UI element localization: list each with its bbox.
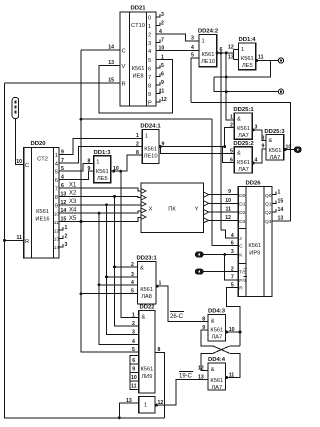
svg-text:15: 15 [278,199,284,205]
wire DD25:1 out3 to DD25:3 in8 [252,130,266,141]
junction out6 at x226.2 [225,51,228,54]
svg-text:ЛЕ5: ЛЕ5 [97,176,108,182]
value K561 LA7 second [237,160,250,173]
svg-text:К561: К561 [140,287,153,293]
svg-text:1: 1 [230,115,233,121]
wire out9 branch to DD25:2 in5 [160,147,234,154]
svg-text:Q3: Q3 [265,219,272,225]
junction X4 drop at DD23 in4 [98,283,101,286]
wire out6 branch down to DD26.J [221,53,238,238]
label DD20 [30,141,46,147]
svg-text:10: 10 [54,212,60,218]
wire DD21.C from vertical bus x81 [81,49,120,51]
svg-text:6: 6 [161,72,164,78]
wire left rail R net [5,83,165,418]
svg-text:DD24:2: DD24:2 [198,29,219,35]
svg-text:8: 8 [148,84,151,90]
wire DD21.V loop to output5 pin1 [99,60,172,114]
svg-text:ЛА7: ЛА7 [238,133,249,139]
svg-text:14: 14 [278,207,284,213]
svg-text:1: 1 [148,24,151,30]
svg-text:9: 9 [132,366,135,372]
wire out6 branch down to DD25:1 in1 [226,53,234,120]
svg-text:3: 3 [65,242,68,248]
junction x81 at y119 [80,118,83,121]
nand-gate DD25:2 K561 LA7 [234,147,252,173]
inverter symbol 1 [144,403,147,409]
svg-text:DD21: DD21 [130,6,146,12]
svg-text:5: 5 [55,170,58,176]
label DD1:3 [93,150,111,156]
junction at 226.2,76.3 [225,76,228,79]
svg-text:&: & [237,117,241,123]
wire DD1:3 out10 to DD24:1 in8 [111,155,143,171]
svg-text:1: 1 [278,190,281,196]
svg-text:C: C [122,49,126,55]
label DD21 [130,6,146,12]
wire branch to DD23:1 in2 [115,266,138,268]
matrix PK block [141,183,204,233]
svg-text:CT10: CT10 [131,23,145,29]
svg-text:X4: X4 [69,208,77,214]
svg-text:12: 12 [54,228,60,234]
connector pins dashes [14,101,16,114]
wire inverter in13 from bottom rail [119,403,139,418]
wire y119 branch to DD26.C [212,119,238,245]
junction bottom rail 13 [118,416,121,419]
wire branch to DD23:1 in5 [81,293,137,295]
wire terminal K to DD26.K [203,254,238,256]
junction X2 drop at DD23 in2 [113,265,116,268]
junction inverter out12 [155,404,158,407]
svg-text:7: 7 [55,187,58,193]
net labels X1-X5 [69,182,77,222]
svg-text:Y: Y [195,207,199,213]
DD21 left pin labels C V R [108,45,125,88]
junction DD24:2 out6 [216,51,219,54]
DD4:4 symbol & [211,367,215,373]
svg-text:26-С: 26-С [170,314,184,320]
svg-text:12: 12 [225,215,231,221]
wire branch to DD23:1 in4 [99,284,137,286]
wire PK Y0 to DD26.D0 [209,194,239,196]
nand-gate DD4:4 K561 LA7 [208,363,226,390]
svg-text:R: R [122,82,126,88]
wire DD21.R from left rail [5,82,121,84]
svg-text:9: 9 [55,203,58,209]
svg-text:V: V [122,64,126,70]
svg-text:12: 12 [161,97,167,103]
label DD25:1 [233,107,254,113]
svg-text:11: 11 [258,55,264,61]
svg-text:ЛА7: ЛА7 [270,155,281,161]
value K561 LA7 dd43 [210,328,223,341]
and-gate DD22 K561 LI9 [139,311,155,393]
DD25:3 symbol & [269,138,273,144]
label DD25:3 [264,129,285,135]
svg-text:9: 9 [228,189,231,195]
vertical bus x81 C/X5 net [81,50,139,352]
svg-text:&: & [211,367,215,373]
svg-text:P/S: P/S [239,278,247,284]
net label 26-C [170,314,184,320]
svg-text:ЛЕ10: ЛЕ10 [201,59,215,65]
svg-text:T/S: T/S [239,270,246,276]
junction out10 drop [119,170,122,173]
DD1:4 pin numbers [228,45,264,61]
DD25:1 pin numbers [230,115,258,131]
wire DD20 row1 pin9 to DD24:1 in1 [59,138,142,154]
counter DD20 K561 IE16 [24,148,59,259]
DD20 output pin numbers [61,149,68,248]
svg-text:К561: К561 [96,169,109,175]
DD26 Q stubs and pin numbers [272,192,276,213]
svg-text:К561: К561 [144,147,157,153]
svg-text:&: & [142,315,146,321]
svg-text:11: 11 [229,373,235,379]
svg-text:ЛИ9: ЛИ9 [141,374,152,380]
junction out9 in2 branch [223,145,226,148]
svg-text:ЛЕ5: ЛЕ5 [242,63,253,69]
svg-text:ПК: ПК [168,207,176,213]
svg-text:7: 7 [161,38,164,44]
svg-text:1: 1 [144,403,147,409]
or-gate DD24:2 K561 LE10 [199,34,217,66]
svg-text:11: 11 [159,89,165,95]
svg-text:ИР9: ИР9 [249,251,260,257]
svg-text:5: 5 [148,58,151,64]
label DD4:4 [208,357,226,363]
svg-text:13: 13 [54,237,60,243]
label DD24:2 [198,29,219,35]
wire DD1:4 out11 to terminal 1 [256,60,279,62]
wire DD24:2 out6 to DD1:4 inputs [217,50,239,60]
wire DD21.out4 pin10 to DD24:2 in4 [156,50,199,52]
value K561 LI9 [140,367,153,381]
wire cross to DD4:4 out11 [226,353,241,377]
label PK [168,207,176,213]
svg-text:C: C [239,244,243,250]
junction X4 [98,212,101,215]
wire K to P/S pin7 [225,255,239,280]
svg-text:CT2: CT2 [37,157,48,163]
terminal circle 2 [278,89,283,94]
wire inverter out12 to DD4:4 in13 (19-C) [155,380,208,406]
svg-text:6: 6 [231,240,234,246]
svg-text:ЛЕ10: ЛЕ10 [144,154,158,160]
svg-text:9: 9 [148,92,151,98]
svg-text:DD25:3: DD25:3 [264,129,285,135]
wire DD20 row5 pin5 to DD1:3 in8 [59,164,94,172]
svg-text:3: 3 [148,41,151,47]
wire X2 drop to DD22 in2 [115,196,139,326]
nor-gate DD1:3 K561 LE5 [94,156,111,183]
overline marks TS PS [244,268,248,276]
DD24:2 pin numbers [191,36,223,59]
DD23:1 symbol & [140,266,144,272]
value K561 LE5 [241,56,254,69]
svg-text:X5: X5 [69,216,77,222]
junction X2 [113,195,116,198]
wire DD1:3 out to DD22 in1 [121,171,139,318]
label DD26 [245,181,261,187]
junction x81 X5 [80,220,83,223]
svg-text:D3: D3 [239,219,245,225]
svg-text:D1: D1 [239,202,245,208]
svg-text:9: 9 [161,80,164,86]
svg-text:8: 8 [55,195,58,201]
svg-text:ЛА8: ЛА8 [141,294,152,300]
svg-text:К561: К561 [248,243,261,249]
value K561 IR9 [248,243,261,257]
svg-text:К561: К561 [210,328,223,334]
wire X4 drop to DD23:1 in4 and DD22 in4 [99,213,139,344]
svg-text:9: 9 [262,144,265,150]
svg-text:1: 1 [145,134,148,140]
svg-text:ЛА7: ЛА7 [238,167,249,173]
wire DD25:3 out10 to right terminal [284,149,295,151]
junction out10 on R drop [239,331,242,334]
svg-text:К561: К561 [237,126,250,132]
junction out6 J branch [219,51,222,54]
svg-text:DD25:2: DD25:2 [233,141,254,147]
wire DD21.out2 pin4 to DD24:2 in3 [156,34,199,41]
value K561 LA7 dd44 [210,378,223,391]
DD24:1 symbol 1 [145,134,148,140]
value K561 IE16 [35,209,49,223]
svg-text:C: C [25,163,29,169]
wire X3 bus [59,204,141,206]
wire X5 bus [59,218,141,222]
svg-text:&: & [269,138,273,144]
DD22 symbol & [142,315,146,321]
DD22 input pin numbers [132,313,161,353]
svg-text:X: X [149,207,153,213]
svg-text:1: 1 [65,225,68,231]
svg-text:X1: X1 [69,182,77,188]
wire DD20.R from left rail [5,239,24,241]
svg-text:P: P [148,101,152,107]
svg-text:DD1:4: DD1:4 [238,37,256,43]
svg-text:5: 5 [161,63,164,69]
terminal cartridge right [295,147,302,152]
svg-text:4: 4 [191,45,194,51]
svg-text:DD4:4: DD4:4 [208,357,226,363]
svg-text:10: 10 [225,198,231,204]
svg-text:8: 8 [202,317,205,323]
svg-text:К561: К561 [132,66,145,72]
svg-text:DD20: DD20 [30,141,46,147]
terminal cartridge TS [196,269,204,274]
value K561 LA7 [237,126,250,139]
wire DD20 row4 pin7 to DD24:1 in2 [59,147,142,163]
DD26 left labels [239,193,247,292]
terminal cartridge K [196,252,204,257]
junction DD23:1 out1 [156,285,159,288]
DD4:3 pin numbers [202,317,234,333]
PK input triangles [141,189,146,220]
wire DD24:2 in5 from Q3 line [191,58,199,103]
svg-text:ИЕ16: ИЕ16 [35,217,49,223]
DD20 stage numbers [54,153,60,251]
wire out9 branch up to DD25:1 in2 [225,128,235,147]
DD25:2 pin numbers [230,149,258,164]
svg-text:DD22: DD22 [139,304,155,310]
junction at 226.2,91.7 [225,90,228,93]
wire DD23:1 out1 to DD4:3 in8 (26-C) [156,286,208,321]
value K561 LE5 first [96,169,109,182]
label DD24:1 [140,124,161,130]
value K561 LA8 [140,287,153,300]
svg-text:10: 10 [131,375,137,381]
svg-text:4: 4 [148,49,151,55]
wire branch to DD23:1 in3 [107,276,138,278]
svg-text:К561: К561 [140,367,153,373]
DD1:4 symbol 1 [241,47,244,53]
wire out11 branch left [214,61,270,78]
svg-text:1: 1 [96,160,99,166]
DD21 output pin numbers [159,12,167,103]
svg-text:11: 11 [54,220,59,226]
svg-text:Q1: Q1 [265,202,272,208]
nand-gate DD23:1 K561 LA8 [137,262,156,305]
DD22 tied pin boxes 6 9 10 11 [130,355,139,389]
value K561 IE8 [132,66,145,80]
DD25:2 symbol & [237,151,241,157]
label Y [195,207,199,213]
wire X3 drop to DD22 in3 [107,205,139,335]
connector XS1 probe [12,98,19,119]
counter DD21 K561 IE8 [120,12,156,106]
DD20 left pin labels [16,159,29,245]
junction DD25:3 out10 [284,148,287,151]
svg-text:DD26: DD26 [245,181,261,187]
label DD4:3 [208,309,226,315]
DD21 output pin stubs [156,14,160,102]
label DD25:2 [233,141,254,147]
svg-text:6: 6 [132,358,135,364]
DD21 output digits 0-9 and P [148,16,152,107]
wire DD26.R from DD4:3 out10 [227,288,241,346]
svg-text:К561: К561 [202,52,215,58]
junction X3 drop at DD23 in3 [105,275,108,278]
label CT2 [37,157,48,163]
nor-gate DD1:4 K561 LE5 [239,43,256,70]
svg-text:&: & [211,318,215,324]
svg-text:13: 13 [198,375,204,381]
svg-text:1: 1 [202,39,205,45]
DD24:2 symbol 1 [202,39,205,45]
svg-text:D0: D0 [239,193,245,199]
wire DD25:2 out4 to DD25:3 in9 [252,149,266,163]
label X [149,207,153,213]
svg-text:12: 12 [198,366,204,372]
svg-text:2: 2 [65,233,68,239]
label DD22 [139,304,155,310]
junction DD4:4 out11 [225,376,228,379]
DD23:1 pin numbers [131,262,162,295]
junction DD24:1 out9 [159,145,162,148]
wire DD4:3 out10 to right vertical [226,331,241,333]
value K561 LE10 first [144,147,158,160]
junction K wire [223,253,226,256]
PK output triangles [204,192,209,223]
svg-text:Q0: Q0 [265,193,272,199]
wire X2 bus [59,196,141,197]
svg-text:К561: К561 [269,148,282,154]
DD24:1 pin numbers [136,133,165,156]
register DD26 K561 IR9 [238,187,272,297]
cross diagonal 1 [213,346,230,354]
svg-text:DD1:3: DD1:3 [93,150,111,156]
svg-text:R: R [239,286,243,292]
wire DD4:3 in9 from cross [201,330,213,346]
svg-text:13: 13 [228,55,234,61]
junction DD4:3 out10 [225,331,228,334]
svg-text:7: 7 [148,75,151,81]
svg-text:&: & [140,266,144,272]
net label 19-C [179,374,193,380]
cross diagonal 2 [213,346,230,354]
junction x81 DD23 in5 [80,292,83,295]
wire PK Y3 to DD26.D3 [209,219,239,221]
DD20 bottom stubs pins 1 2 3 [59,227,63,247]
svg-text:19-С: 19-С [179,374,193,380]
DD1:3 symbol 1 [96,160,99,166]
wire DD24:1 out9 to DD25:2 in6 [159,147,234,163]
svg-text:DD24:1: DD24:1 [140,124,161,130]
terminal circle 1 [278,58,283,63]
label CT10 [131,23,145,29]
wire PK Y1 to DD26.D1 [209,202,239,204]
wire X1 bus [59,188,141,191]
svg-text:X3: X3 [69,199,77,205]
value K561 LA7 third [269,148,282,161]
svg-text:1: 1 [55,153,58,159]
svg-text:0: 0 [148,16,151,22]
wire DD20 row6 pin4 to DD1:3 in9 [59,171,94,179]
svg-text:К561: К561 [241,56,254,62]
svg-text:3: 3 [161,12,164,18]
svg-text:&: & [237,151,241,157]
svg-text:1: 1 [132,313,135,319]
junction out11 [255,59,258,62]
DD22 inverter section [139,396,155,413]
DD26 right labels Q0-Q3 [265,193,272,225]
DD25:1 symbol & [237,117,241,123]
junction DD25:2 out4 [252,162,255,165]
svg-text:D2: D2 [239,210,245,216]
wire X4 bus [59,211,141,213]
value K561 LE10 [201,52,215,65]
wire cross to DD4:4 in12 [201,353,213,370]
PK to DD26 pin numbers [225,189,231,221]
junction X3 [105,203,108,206]
wire DD22 out8 to bottom rail [155,352,165,418]
junction left rail R [3,239,6,242]
svg-text:DD4:3: DD4:3 [208,309,226,315]
nand-gate DD25:3 K561 LA7 [266,135,284,160]
nand-gate DD4:3 K561 LA7 [208,315,226,342]
wire PK Y2 to DD26.D2 [209,211,239,213]
wire terminal to DD26 T/S pin2 [203,271,238,273]
svg-text:X2: X2 [69,191,77,197]
DD25:3 pin numbers [262,136,292,151]
junction DD1:3 out10 [112,170,115,173]
svg-text:К561: К561 [237,160,250,166]
or-gate DD24:1 K561 LE10 [142,130,159,164]
svg-text:К561: К561 [36,209,49,215]
